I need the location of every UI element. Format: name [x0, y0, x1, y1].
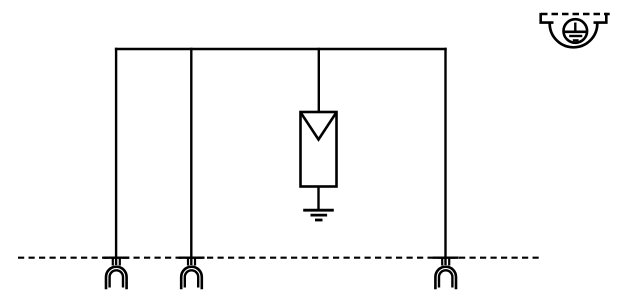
- node: soil surface (dashed earth line): [18, 257, 539, 259]
- protective earth symbol: [574, 23, 576, 32]
- ground symbol (below F1): [303, 210, 334, 220]
- wire: right bracket: [594, 13, 607, 23]
- wire: left down-conductor: [115, 48, 117, 265]
- wire: foundation arc: [550, 24, 598, 48]
- wire: second down-conductor: [190, 48, 192, 265]
- wire: right down-conductor: [444, 48, 446, 265]
- wire: middle branch to arrester F1: [318, 48, 320, 111]
- surge arrester F1 (spark gap box): [301, 112, 337, 187]
- earth electrode E1 (left): [103, 257, 129, 289]
- wire: top horizontal air-termination conductor: [115, 48, 447, 50]
- terminal circle: [564, 19, 588, 43]
- wire: arrester F1 to ground: [317, 187, 319, 211]
- node: foundation top (dashed): [541, 13, 610, 16]
- earth electrode E2 (second): [179, 257, 205, 289]
- earth electrode E3 (right): [433, 257, 459, 289]
- legend icon: foundation earth with protective-earth terminal (top right): [541, 13, 610, 47]
- wire: left bracket: [541, 13, 554, 23]
